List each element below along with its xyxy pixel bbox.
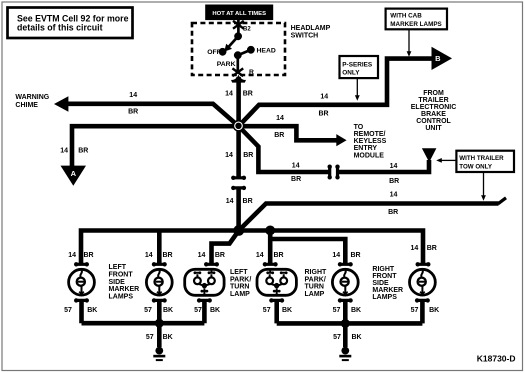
svg-text:57: 57: [64, 307, 72, 314]
svg-text:PARK/: PARK/: [305, 276, 326, 283]
svg-text:PARK/: PARK/: [230, 276, 251, 283]
svg-text:K18730-D: K18730-D: [477, 354, 516, 364]
svg-text:BR: BR: [162, 252, 172, 259]
svg-text:R: R: [249, 69, 254, 76]
svg-text:UNIT: UNIT: [425, 125, 442, 132]
svg-text:BK: BK: [163, 307, 173, 314]
svg-text:14: 14: [332, 252, 340, 259]
svg-text:57: 57: [411, 307, 419, 314]
svg-text:BR: BR: [389, 178, 399, 185]
svg-text:57: 57: [333, 307, 341, 314]
svg-text:14: 14: [411, 245, 419, 252]
svg-text:WARNING: WARNING: [15, 94, 49, 101]
svg-text:RIGHT: RIGHT: [305, 269, 328, 276]
svg-text:BK: BK: [282, 307, 292, 314]
svg-text:BR: BR: [427, 245, 437, 252]
svg-text:LAMPS: LAMPS: [109, 293, 134, 300]
svg-text:LAMP: LAMP: [230, 291, 250, 298]
svg-text:RIGHT: RIGHT: [372, 266, 395, 273]
svg-text:SWITCH: SWITCH: [291, 32, 319, 39]
svg-text:BK: BK: [351, 307, 361, 314]
svg-text:TOW ONLY: TOW ONLY: [459, 164, 493, 171]
svg-text:B2: B2: [243, 27, 251, 33]
svg-text:57: 57: [263, 307, 271, 314]
svg-text:FRONT: FRONT: [372, 273, 397, 280]
svg-text:details of this circuit: details of this circuit: [17, 23, 103, 33]
svg-text:BR: BR: [291, 176, 301, 183]
svg-text:BR: BR: [388, 209, 398, 216]
svg-text:MARKER: MARKER: [372, 287, 403, 294]
svg-text:CONTROL: CONTROL: [416, 118, 451, 125]
svg-text:57: 57: [144, 307, 152, 314]
svg-text:TO: TO: [354, 124, 364, 131]
svg-text:LEFT: LEFT: [109, 264, 127, 271]
svg-text:ELECTRONIC: ELECTRONIC: [411, 104, 457, 111]
svg-text:BRAKE: BRAKE: [421, 111, 446, 118]
svg-text:57: 57: [333, 334, 341, 341]
svg-text:WITH CAB: WITH CAB: [390, 13, 422, 20]
svg-text:14: 14: [390, 191, 398, 198]
svg-text:14: 14: [225, 152, 233, 159]
svg-text:BR: BR: [215, 252, 225, 259]
svg-text:14: 14: [60, 148, 68, 155]
svg-text:BR: BR: [318, 110, 328, 117]
svg-text:TRAILER: TRAILER: [418, 97, 448, 104]
svg-text:HEADLAMP: HEADLAMP: [291, 25, 331, 32]
svg-text:14: 14: [276, 115, 284, 122]
svg-text:P-SERIES: P-SERIES: [342, 62, 373, 69]
svg-text:BR: BR: [243, 198, 253, 205]
svg-text:14: 14: [292, 163, 300, 170]
svg-text:KEYLESS: KEYLESS: [354, 138, 387, 145]
svg-text:HEAD: HEAD: [257, 48, 276, 55]
svg-text:57: 57: [194, 307, 202, 314]
svg-text:CHIME: CHIME: [15, 102, 38, 109]
svg-text:BR: BR: [273, 252, 283, 259]
svg-text:MODULE: MODULE: [354, 152, 385, 159]
svg-text:BR: BR: [350, 252, 360, 259]
svg-text:14: 14: [225, 90, 233, 97]
svg-text:BR: BR: [78, 148, 88, 155]
svg-text:14: 14: [68, 252, 76, 259]
svg-text:BR: BR: [83, 252, 93, 259]
svg-text:OFF: OFF: [207, 49, 221, 56]
svg-text:14: 14: [145, 252, 153, 259]
svg-text:14: 14: [198, 252, 206, 259]
svg-text:BK: BK: [87, 307, 97, 314]
svg-text:SIDE: SIDE: [372, 280, 389, 287]
svg-text:BK: BK: [210, 307, 220, 314]
svg-text:BR: BR: [274, 132, 284, 139]
svg-text:LAMP: LAMP: [305, 291, 325, 298]
svg-text:14: 14: [256, 252, 264, 259]
svg-text:TURN: TURN: [230, 284, 249, 291]
svg-text:B: B: [435, 54, 441, 63]
svg-text:BK: BK: [163, 334, 173, 341]
svg-text:14: 14: [390, 163, 398, 170]
svg-text:LAMPS: LAMPS: [372, 294, 397, 301]
svg-text:LEFT: LEFT: [230, 269, 248, 276]
svg-text:BR: BR: [128, 109, 138, 116]
svg-text:14: 14: [226, 198, 234, 205]
svg-text:SIDE: SIDE: [109, 279, 126, 286]
svg-text:MARKER: MARKER: [109, 286, 140, 293]
svg-text:57: 57: [146, 334, 154, 341]
svg-text:BR: BR: [243, 152, 253, 159]
svg-text:FROM: FROM: [423, 90, 444, 97]
svg-text:MARKER LAMPS: MARKER LAMPS: [390, 21, 441, 28]
svg-text:A: A: [71, 169, 77, 178]
svg-text:REMOTE/: REMOTE/: [354, 131, 386, 138]
svg-text:WITH TRAILER: WITH TRAILER: [459, 155, 504, 162]
svg-text:ONLY: ONLY: [342, 70, 360, 77]
svg-text:ENTRY: ENTRY: [354, 145, 378, 152]
svg-text:TURN: TURN: [305, 284, 324, 291]
svg-text:BK: BK: [429, 307, 439, 314]
svg-text:14: 14: [320, 94, 328, 101]
svg-text:HOT AT ALL TIMES: HOT AT ALL TIMES: [212, 11, 266, 17]
svg-text:FRONT: FRONT: [109, 272, 134, 279]
svg-text:BK: BK: [351, 334, 361, 341]
svg-text:14: 14: [129, 92, 137, 99]
svg-text:BR: BR: [243, 90, 253, 97]
svg-text:PARK: PARK: [217, 61, 236, 68]
